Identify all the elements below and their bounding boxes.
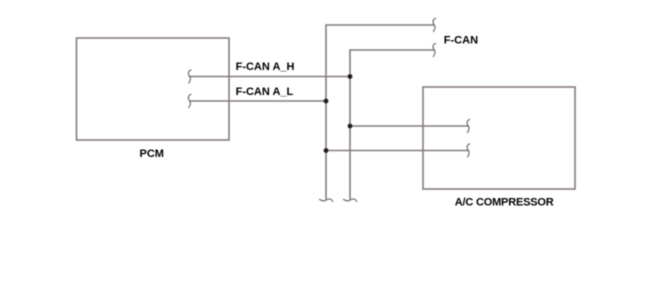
svg-text:F-CAN: F-CAN: [444, 34, 478, 46]
svg-text:F-CAN A_H: F-CAN A_H: [236, 61, 295, 73]
svg-text:F-CAN A_L: F-CAN A_L: [236, 86, 294, 98]
svg-text:A/C COMPRESSOR: A/C COMPRESSOR: [455, 196, 554, 208]
svg-text:PCM: PCM: [140, 148, 164, 160]
